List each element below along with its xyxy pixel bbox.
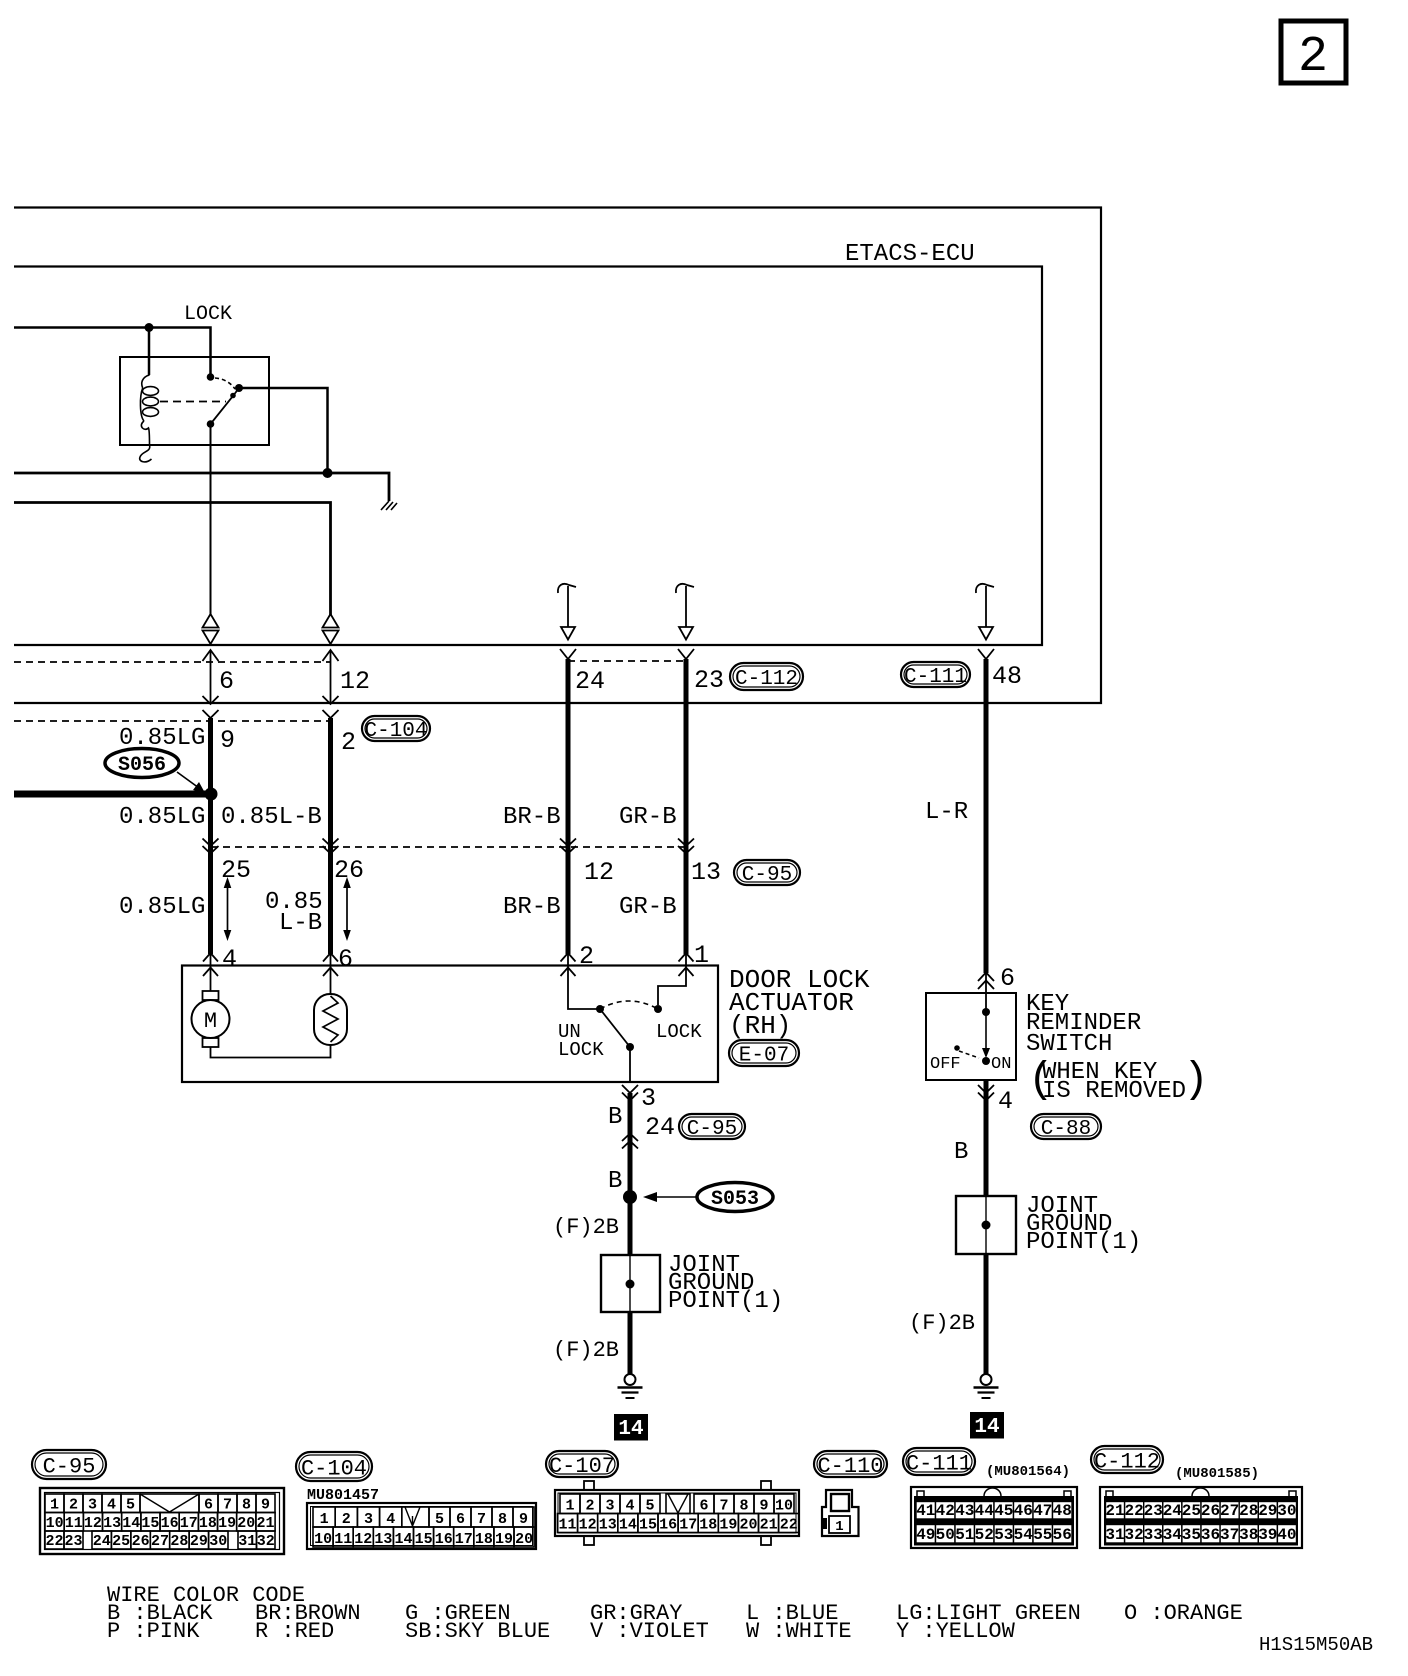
- connector crossing at outer line x=210.5: [203, 696, 219, 704]
- connector crossing at inner line x=986: [978, 649, 994, 659]
- svg-text:(RH): (RH): [729, 1011, 791, 1041]
- connector C-104 oval bottom: [296, 1452, 372, 1481]
- svg-text:2: 2: [579, 942, 594, 971]
- wire bus A horizontal: [14, 473, 389, 501]
- svg-text:31: 31: [1105, 1526, 1124, 1544]
- svg-text:54: 54: [1014, 1526, 1034, 1544]
- svg-text:C-95: C-95: [687, 1118, 737, 1141]
- svg-text:2: 2: [342, 1511, 351, 1528]
- actuator switch dashed arc: [600, 1001, 658, 1009]
- svg-text:50: 50: [936, 1526, 955, 1544]
- svg-text:15: 15: [141, 1515, 159, 1532]
- connector C-104 pin face: [307, 1503, 536, 1549]
- svg-text:51: 51: [955, 1526, 974, 1544]
- svg-text:30: 30: [1277, 1502, 1296, 1520]
- connector crossing at inner line x=686: [678, 649, 694, 659]
- C-107 key cell: [666, 1494, 690, 1514]
- svg-text:24: 24: [645, 1113, 675, 1142]
- svg-text:21: 21: [1105, 1502, 1124, 1520]
- svg-text:(F)2B: (F)2B: [553, 1215, 619, 1240]
- svg-text:H1S15M50AB: H1S15M50AB: [1259, 1634, 1373, 1656]
- connector C-95 pin face: [40, 1488, 284, 1554]
- svg-text:28: 28: [170, 1533, 188, 1550]
- svg-text:28: 28: [1239, 1502, 1258, 1520]
- svg-text:R :RED: R :RED: [255, 1619, 334, 1644]
- solenoid L1 door lock coil: [314, 994, 347, 1045]
- svg-text:7: 7: [719, 1498, 728, 1515]
- svg-text:L-R: L-R: [925, 799, 968, 826]
- svg-text:LOCK: LOCK: [184, 303, 232, 326]
- svg-text:7: 7: [223, 1497, 232, 1514]
- svg-text:B: B: [608, 1104, 622, 1131]
- svg-text:36: 36: [1201, 1526, 1220, 1544]
- connector crossing C-95 x=568: [560, 839, 576, 847]
- connector arrow at inner line x=330.5: [323, 650, 339, 661]
- svg-text:8: 8: [242, 1497, 251, 1514]
- connector C-111 pin face: [911, 1487, 1077, 1548]
- svg-text:6: 6: [204, 1497, 213, 1514]
- svg-text:6: 6: [1000, 964, 1015, 993]
- svg-text:7: 7: [477, 1511, 486, 1528]
- key reminder switch box: [926, 993, 1016, 1080]
- connector crossing actuator top x=686: [679, 953, 694, 962]
- dashed connector line C-104: [14, 720, 331, 722]
- C-111 row2 pins 49-56: [916, 1525, 936, 1544]
- connector C-88 oval: [1031, 1114, 1101, 1139]
- splice S053 arrow: [655, 1196, 698, 1198]
- connector C-107 pin face: [584, 1481, 594, 1490]
- svg-text:9: 9: [759, 1498, 768, 1515]
- ground symbol left: [625, 1374, 636, 1385]
- svg-text:53: 53: [994, 1526, 1013, 1544]
- dashed connector line C-95: [211, 846, 686, 848]
- svg-text:5: 5: [126, 1497, 135, 1514]
- svg-text:8: 8: [498, 1511, 507, 1528]
- svg-text:13: 13: [374, 1531, 392, 1548]
- svg-text:1: 1: [320, 1511, 329, 1528]
- svg-text:23: 23: [1144, 1502, 1163, 1520]
- svg-text:12: 12: [584, 858, 614, 887]
- svg-text:9: 9: [261, 1497, 270, 1514]
- svg-text:(MU801564): (MU801564): [986, 1464, 1070, 1480]
- svg-text:29: 29: [190, 1533, 208, 1550]
- svg-text:26: 26: [132, 1533, 150, 1550]
- double arrow x=347: [346, 886, 348, 932]
- svg-text:S053: S053: [711, 1188, 759, 1211]
- svg-text:3: 3: [88, 1497, 97, 1514]
- svg-text:24: 24: [1163, 1502, 1183, 1520]
- svg-text:11: 11: [334, 1531, 352, 1548]
- svg-text:22: 22: [1124, 1502, 1143, 1520]
- C-107 row1 pins 1-10: [560, 1494, 580, 1514]
- svg-text:E-07: E-07: [739, 1045, 789, 1068]
- svg-text:19: 19: [719, 1517, 737, 1534]
- wire relay common to bus: [239, 388, 328, 473]
- svg-text:C-95: C-95: [742, 864, 792, 887]
- contact key switch top: [982, 1008, 990, 1016]
- wire actuator pin6 to solenoid: [330, 953, 332, 994]
- svg-text:32: 32: [257, 1533, 275, 1550]
- svg-text:46: 46: [1014, 1502, 1033, 1520]
- svg-text:0.85LG: 0.85LG: [119, 725, 205, 752]
- C-95 key cell: [140, 1494, 199, 1513]
- contact LOCK: [654, 1005, 662, 1013]
- svg-text:11: 11: [65, 1515, 83, 1532]
- svg-text:2: 2: [69, 1497, 78, 1514]
- connector crossing C-95 x=210.5: [203, 839, 219, 847]
- connector C-111 oval: [901, 662, 970, 687]
- connector crossing actuator top x=210.5: [203, 953, 218, 962]
- svg-text:43: 43: [955, 1502, 974, 1520]
- ETACS-ECU inner box: [14, 267, 1042, 646]
- wire joint ground to earth right: [984, 1254, 989, 1374]
- C-107 row2 pins 11-22: [558, 1514, 578, 1533]
- svg-text:4: 4: [222, 945, 237, 974]
- ground ref 14 black box left: [615, 1415, 647, 1440]
- svg-text:V :VIOLET: V :VIOLET: [590, 1619, 709, 1644]
- joint ground point (1) box left: [601, 1255, 660, 1312]
- svg-text:45: 45: [994, 1502, 1013, 1520]
- wire B key switch down: [984, 1080, 989, 1196]
- terminal pin 6 double triangle: [203, 614, 219, 644]
- svg-text:10: 10: [46, 1515, 64, 1532]
- key switch OFF contact: [954, 1045, 960, 1051]
- svg-text:26: 26: [1201, 1502, 1220, 1520]
- node relay coil junction: [145, 323, 154, 332]
- wire to pin 24 from other page hook arrow: [558, 584, 576, 593]
- connector C-107 oval bottom: [546, 1451, 618, 1477]
- wire thick feeder 0.85LG from page 1: [14, 791, 211, 798]
- wire BR-B pin24 to actuator pin2: [566, 659, 571, 954]
- svg-text:31: 31: [238, 1533, 256, 1550]
- wire GR-B pin23 to actuator pin1: [684, 659, 689, 954]
- svg-text:4: 4: [107, 1497, 116, 1514]
- svg-text:10: 10: [775, 1498, 793, 1515]
- svg-text:44: 44: [975, 1502, 995, 1520]
- svg-text:(F)2B: (F)2B: [909, 1311, 975, 1336]
- wire relay feed top: [14, 328, 211, 378]
- connector C-110 pin face: [822, 1490, 859, 1536]
- svg-text:10: 10: [314, 1531, 332, 1548]
- svg-text:35: 35: [1182, 1526, 1201, 1544]
- svg-text:L-B: L-B: [279, 910, 322, 937]
- relay switch dashed throw: [215, 378, 235, 389]
- node actuator switch pivot: [626, 1043, 634, 1051]
- svg-text:25: 25: [112, 1533, 130, 1550]
- connector crossing actuator top x=330.5: [323, 953, 338, 962]
- svg-text:14: 14: [394, 1531, 412, 1548]
- connector C-112 oval bottom: [1091, 1446, 1163, 1473]
- wire B actuator pin3 down: [628, 1093, 633, 1197]
- svg-text:C-111: C-111: [904, 666, 967, 689]
- wire to pin 23 from other page hook arrow: [676, 584, 694, 593]
- svg-text:33: 33: [1144, 1526, 1163, 1544]
- svg-text:17: 17: [679, 1517, 697, 1534]
- svg-text:48: 48: [1053, 1502, 1072, 1520]
- relay switch arm: [211, 388, 240, 424]
- wire L-R pin48 to key reminder switch: [984, 659, 989, 973]
- svg-text:C-112: C-112: [1094, 1449, 1160, 1474]
- svg-text:Y :YELLOW: Y :YELLOW: [896, 1619, 1016, 1644]
- svg-text:6: 6: [338, 945, 353, 974]
- svg-text:8: 8: [739, 1498, 748, 1515]
- door lock actuator box: [182, 966, 718, 1083]
- connector C-95 oval upper: [734, 860, 800, 885]
- svg-text:C-104: C-104: [364, 720, 427, 743]
- key switch movable contact: [985, 1012, 987, 1056]
- svg-text:48: 48: [992, 662, 1022, 691]
- connector C-95 oval lower: [679, 1114, 745, 1139]
- svg-text:39: 39: [1258, 1526, 1277, 1544]
- svg-text:38: 38: [1239, 1526, 1258, 1544]
- connector C-104 oval: [362, 716, 430, 741]
- relay box: [120, 357, 269, 445]
- svg-text:9: 9: [220, 726, 235, 755]
- connector crossing C-95 x=330.5: [323, 839, 339, 847]
- svg-text:20: 20: [515, 1531, 533, 1548]
- connector C-110 oval bottom: [814, 1451, 887, 1477]
- C-104 key cell: [402, 1507, 429, 1527]
- svg-text:32: 32: [1124, 1526, 1143, 1544]
- svg-text:2: 2: [585, 1498, 594, 1515]
- connector E-07 oval: [729, 1040, 799, 1066]
- svg-text:3: 3: [364, 1511, 373, 1528]
- svg-text:1: 1: [565, 1498, 574, 1515]
- svg-text:0.85L-B: 0.85L-B: [221, 804, 322, 831]
- svg-text:): ): [1183, 1055, 1209, 1104]
- C-111 row1 pins 41-48: [916, 1502, 936, 1520]
- svg-text:20: 20: [237, 1515, 255, 1532]
- svg-text:W :WHITE: W :WHITE: [746, 1619, 852, 1644]
- svg-text:C-112: C-112: [735, 668, 798, 691]
- svg-text:12: 12: [579, 1517, 597, 1534]
- svg-text:5: 5: [435, 1511, 444, 1528]
- svg-text:49: 49: [916, 1526, 935, 1544]
- svg-text:13: 13: [691, 858, 721, 887]
- svg-text:1: 1: [50, 1497, 59, 1514]
- svg-text:18: 18: [699, 1517, 717, 1534]
- splice S053 oval: [697, 1183, 773, 1212]
- svg-text:3: 3: [641, 1084, 656, 1113]
- connector crossing actuator bottom pin3: [622, 1085, 638, 1093]
- svg-text:2: 2: [1298, 29, 1328, 86]
- svg-text:29: 29: [1258, 1502, 1277, 1520]
- svg-text:0.85LG: 0.85LG: [119, 894, 205, 921]
- svg-text:25: 25: [1182, 1502, 1201, 1520]
- ground chassis hatch: [381, 501, 397, 510]
- svg-text:11: 11: [558, 1517, 576, 1534]
- C-104 row1 pins 1-9: [313, 1507, 335, 1527]
- node S053 junction: [623, 1190, 637, 1204]
- svg-text:C-88: C-88: [1041, 1118, 1091, 1141]
- svg-text:13: 13: [599, 1517, 617, 1534]
- C-95 row3 pins 22-32: [45, 1531, 64, 1549]
- wire actuator pin4 to motor: [210, 953, 212, 991]
- svg-text:13: 13: [103, 1515, 121, 1532]
- svg-text:S056: S056: [118, 754, 166, 777]
- ground symbol right: [981, 1374, 992, 1385]
- svg-text:2: 2: [341, 728, 356, 757]
- contact UNLOCK: [596, 1005, 604, 1013]
- connector C-95 oval bottom: [32, 1450, 106, 1479]
- svg-text:25: 25: [221, 856, 251, 885]
- C-112 row2 pins 31-40: [1106, 1525, 1125, 1544]
- svg-text:18: 18: [199, 1515, 217, 1532]
- svg-text:B: B: [608, 1168, 622, 1195]
- svg-text:27: 27: [1220, 1502, 1239, 1520]
- svg-text:M: M: [204, 1009, 217, 1034]
- svg-text:C-107: C-107: [549, 1454, 615, 1479]
- svg-text:POINT(1): POINT(1): [1026, 1229, 1141, 1256]
- wire relay bottom contact down: [210, 424, 212, 615]
- svg-text:LOCK: LOCK: [558, 1039, 604, 1061]
- actuator switch arm: [600, 1009, 630, 1047]
- svg-text:15: 15: [639, 1517, 657, 1534]
- relay coil: [148, 328, 151, 376]
- svg-text:IS REMOVED: IS REMOVED: [1042, 1078, 1186, 1105]
- svg-text:14: 14: [619, 1517, 637, 1534]
- svg-text:6: 6: [219, 667, 234, 696]
- svg-text:40: 40: [1277, 1526, 1296, 1544]
- svg-text:17: 17: [455, 1531, 473, 1548]
- svg-text:12: 12: [84, 1515, 102, 1532]
- wire actuator pin1 to lock contact: [658, 953, 686, 1005]
- svg-text:22: 22: [780, 1517, 798, 1534]
- connector crossing C-95 x=686: [678, 839, 694, 847]
- svg-text:B: B: [954, 1139, 968, 1166]
- svg-text:41: 41: [916, 1502, 935, 1520]
- svg-text:GR-B: GR-B: [619, 894, 677, 921]
- svg-text:16: 16: [161, 1515, 179, 1532]
- svg-text:P :PINK: P :PINK: [107, 1619, 200, 1644]
- connector crossing at outer line x=330.5: [323, 696, 339, 704]
- svg-text:BR-B: BR-B: [503, 804, 561, 831]
- page number box 2: [1281, 21, 1346, 83]
- svg-text:16: 16: [435, 1531, 453, 1548]
- svg-text:C-110: C-110: [817, 1454, 883, 1479]
- connector C-112 oval: [730, 663, 803, 690]
- svg-text:0.85LG: 0.85LG: [119, 804, 205, 831]
- connector C-112 pin face: [1100, 1487, 1302, 1548]
- splice S056 oval: [105, 749, 179, 778]
- svg-text:20: 20: [739, 1517, 757, 1534]
- wire pivot to actuator pin3: [629, 1047, 631, 1082]
- joint ground point (1) box right: [956, 1196, 1016, 1254]
- svg-text:14: 14: [122, 1515, 140, 1532]
- relay contact top: [207, 373, 215, 381]
- svg-text:(MU801585): (MU801585): [1175, 1466, 1259, 1482]
- svg-text:24: 24: [93, 1533, 111, 1550]
- svg-text:4: 4: [625, 1498, 634, 1515]
- svg-text:21: 21: [760, 1517, 778, 1534]
- svg-text:3: 3: [605, 1498, 614, 1515]
- wire 0.85LG pin9 to actuator pin4: [208, 718, 213, 954]
- svg-text:OFF: OFF: [930, 1055, 961, 1074]
- svg-text:MU801457: MU801457: [307, 1487, 379, 1504]
- svg-text:18: 18: [475, 1531, 493, 1548]
- svg-text:22: 22: [45, 1533, 63, 1550]
- svg-text:56: 56: [1053, 1526, 1072, 1544]
- connector C-111 oval bottom: [903, 1448, 975, 1475]
- node S056 junction: [205, 788, 218, 801]
- relay contact bottom: [207, 420, 215, 428]
- svg-text:BR-B: BR-B: [503, 894, 561, 921]
- svg-text:(F)2B: (F)2B: [553, 1338, 619, 1363]
- svg-text:12: 12: [354, 1531, 372, 1548]
- motor M1 door lock motor: [203, 991, 219, 1000]
- svg-text:24: 24: [575, 667, 605, 696]
- relay contact common: [235, 384, 243, 392]
- svg-text:14: 14: [618, 1418, 643, 1441]
- svg-text:POINT(1): POINT(1): [668, 1288, 783, 1315]
- svg-text:15: 15: [415, 1531, 433, 1548]
- svg-text:30: 30: [209, 1533, 227, 1550]
- svg-text:SB:SKY BLUE: SB:SKY BLUE: [405, 1619, 550, 1644]
- svg-text:12: 12: [340, 667, 370, 696]
- svg-text:9: 9: [519, 1511, 528, 1528]
- wire junction to joint ground point: [628, 1197, 633, 1255]
- svg-text:16: 16: [659, 1517, 677, 1534]
- svg-text:27: 27: [151, 1533, 169, 1550]
- wire actuator pin2 to unlock contact: [568, 953, 600, 1009]
- svg-text:14: 14: [974, 1416, 999, 1439]
- connector crossing actuator top x=568: [561, 953, 576, 962]
- svg-text:C-104: C-104: [301, 1456, 367, 1481]
- connector arrow at inner line x=210.5: [203, 650, 219, 661]
- svg-text:42: 42: [936, 1502, 955, 1520]
- splice S056 arrow: [177, 772, 199, 788]
- svg-text:26: 26: [334, 856, 364, 885]
- wire joint ground to earth left: [628, 1312, 633, 1374]
- svg-text:LOCK: LOCK: [656, 1021, 702, 1043]
- svg-text:55: 55: [1033, 1526, 1052, 1544]
- wire 0.85L-B pin2 to actuator pin6: [328, 718, 333, 954]
- svg-text:52: 52: [975, 1526, 994, 1544]
- dashed connector line C-112 left segment: [14, 661, 331, 663]
- svg-text:ETACS-ECU: ETACS-ECU: [845, 241, 975, 268]
- svg-text:1: 1: [835, 1519, 843, 1535]
- connector crossing key switch top: [978, 973, 994, 982]
- svg-text:ON: ON: [991, 1055, 1011, 1074]
- svg-text:37: 37: [1220, 1526, 1239, 1544]
- dashed connector line C-112 right segment: [568, 660, 686, 662]
- svg-text:34: 34: [1163, 1526, 1183, 1544]
- svg-text:47: 47: [1033, 1502, 1052, 1520]
- wire to pin 48 from other page hook arrow: [976, 584, 994, 593]
- svg-text:23: 23: [694, 666, 724, 695]
- svg-text:4: 4: [998, 1087, 1013, 1116]
- svg-text:SWITCH: SWITCH: [1026, 1031, 1112, 1058]
- svg-text:O :ORANGE: O :ORANGE: [1124, 1601, 1243, 1626]
- svg-text:6: 6: [699, 1498, 708, 1515]
- connector crossing C-95 pin24: [622, 1134, 638, 1142]
- C-112 row1 pins 21-30: [1106, 1502, 1125, 1520]
- wire bus B horizontal: [14, 503, 331, 616]
- svg-text:C-95: C-95: [43, 1454, 96, 1479]
- ground ref 14 black box right: [971, 1413, 1003, 1438]
- svg-text:19: 19: [218, 1515, 236, 1532]
- svg-text:19: 19: [495, 1531, 513, 1548]
- svg-text:17: 17: [180, 1515, 198, 1532]
- svg-text:4: 4: [386, 1511, 395, 1528]
- double arrow x=227.5: [227, 886, 229, 932]
- wire motor to solenoid bottom: [211, 1045, 331, 1058]
- wire into key switch: [985, 972, 987, 1012]
- connector crossing key switch bottom: [978, 1085, 994, 1093]
- relay coil tail squiggle: [140, 445, 152, 462]
- node bus junction: [323, 468, 333, 478]
- svg-text:5: 5: [645, 1498, 654, 1515]
